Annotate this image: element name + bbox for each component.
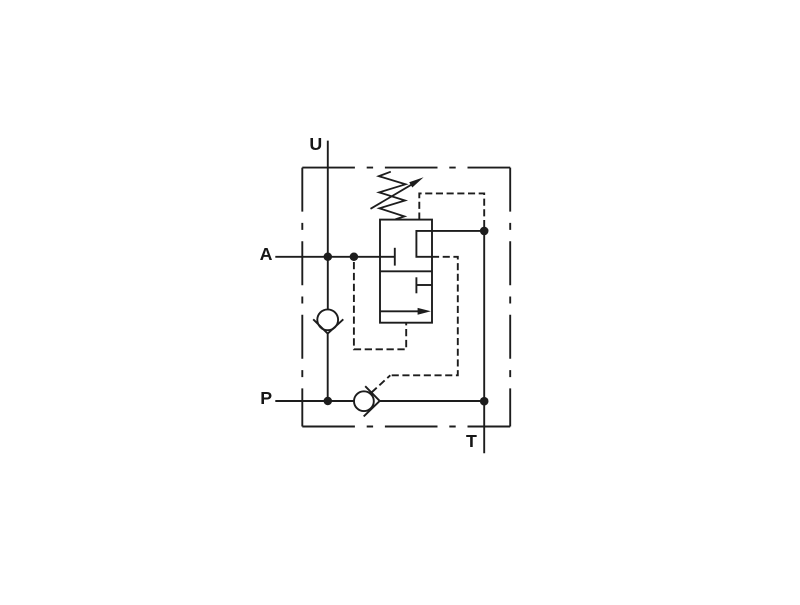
check valve CV2 seat lower leg xyxy=(364,401,380,417)
pilot line: diagonal into CV2 seat (dashed) xyxy=(372,375,391,392)
svg-text:T: T xyxy=(466,431,477,451)
node: junction dot A/pilot xyxy=(350,253,359,262)
svg-text:P: P xyxy=(260,388,272,408)
spring (relief setting) xyxy=(379,172,406,220)
enclosure boundary left edge (dash-dot) xyxy=(301,168,303,427)
valve U1 body box xyxy=(380,220,432,323)
adjustment arrow shaft xyxy=(371,182,417,209)
valve U1 flow path arrow shaft (bottom chamber) xyxy=(380,310,424,312)
valve U1 blocked port stub (A, top chamber) xyxy=(380,256,395,258)
enclosure boundary top edge (dash-dot) xyxy=(302,167,510,169)
check valve CV2 ball xyxy=(354,391,374,411)
pilot line: valve top to upper T branch (dashed) xyxy=(419,193,484,231)
enclosure boundary right edge (dash-dot) xyxy=(509,168,511,427)
node: junction dot U/A xyxy=(324,253,333,262)
pilot line: valve side port to CV2 (dashed) xyxy=(390,257,458,376)
valve U1 blocked port bar (bottom chamber) xyxy=(415,277,417,293)
wire: T line vertical xyxy=(483,231,485,453)
wire: U line vertical xyxy=(327,141,329,310)
wire: A line horizontal xyxy=(275,256,380,258)
svg-text:U: U xyxy=(309,134,322,154)
valve U1 position divider xyxy=(380,270,432,272)
pilot line: A junction to valve bottom (dashed) xyxy=(354,262,406,349)
node: junction dot P xyxy=(324,397,333,406)
valve U1 internal path (top chamber) xyxy=(416,231,484,257)
node: junction dot upper T branch xyxy=(480,227,489,236)
enclosure boundary bottom edge (dash-dot) xyxy=(302,426,510,428)
node: junction dot T xyxy=(480,397,489,406)
adjustment arrowhead xyxy=(409,177,423,187)
check valve CV2 seat upper leg xyxy=(365,386,380,401)
valve U1 blocked port bar (top chamber) xyxy=(394,248,396,266)
wire: P line right segment xyxy=(380,400,485,402)
valve U1 flow path arrowhead xyxy=(418,308,431,315)
wire: CV1 to P line xyxy=(327,334,329,401)
valve U1 blocked port stub (bottom chamber) xyxy=(416,284,432,286)
check valve CV1 seat xyxy=(313,319,343,333)
check valve CV1 ball xyxy=(317,309,338,330)
wire: P line left segment xyxy=(275,400,354,402)
svg-text:A: A xyxy=(260,244,273,264)
